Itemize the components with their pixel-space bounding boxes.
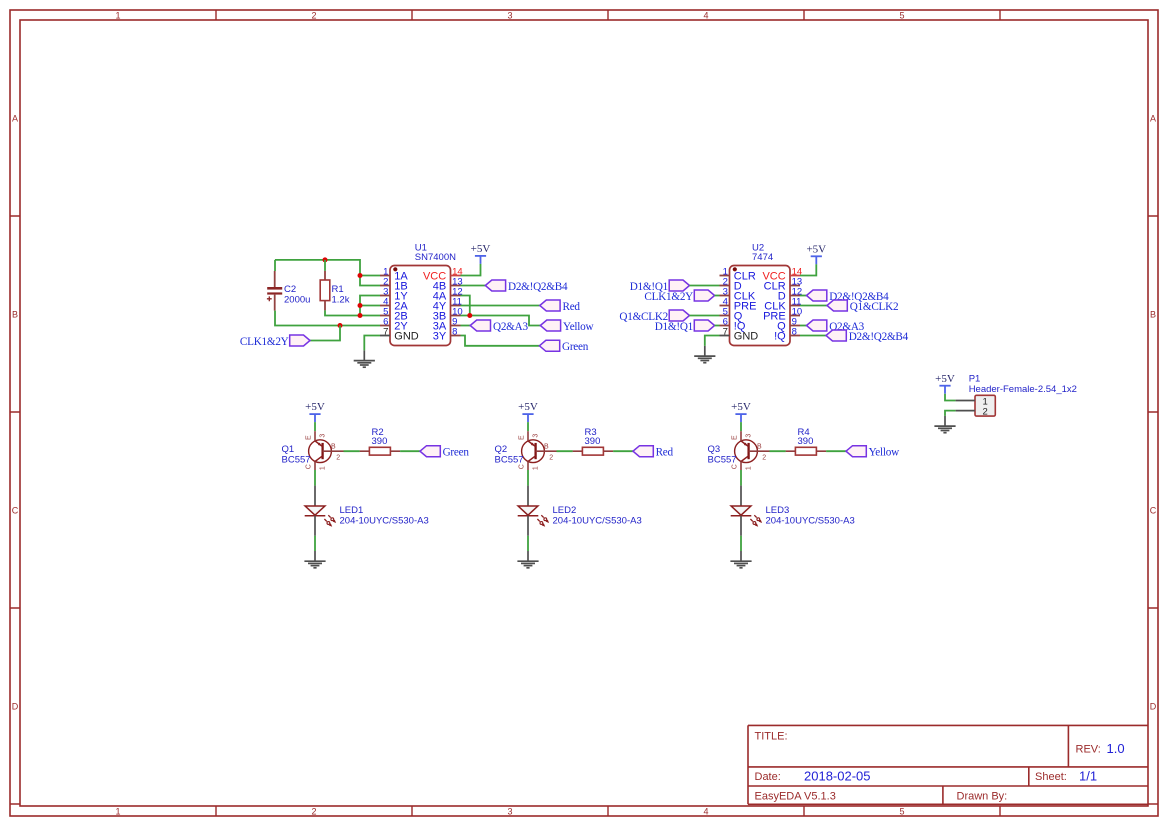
svg-text:390: 390 — [585, 436, 601, 447]
wire LED1 cathode to ground — [314, 536, 316, 551]
wire Q3 base to R4 — [770, 450, 786, 452]
svg-text:390: 390 — [372, 436, 388, 447]
power flag +5V for P1 — [935, 373, 955, 394]
svg-text:1: 1 — [115, 10, 120, 20]
svg-text:D1&!Q1: D1&!Q1 — [655, 321, 693, 333]
svg-text:BC557: BC557 — [282, 455, 311, 466]
svg-text:CLK1&2Y: CLK1&2Y — [644, 291, 693, 303]
svg-text:LED1: LED1 — [340, 505, 364, 516]
svg-text:1.0: 1.0 — [1107, 741, 1125, 756]
svg-text:1/1: 1/1 — [1079, 769, 1097, 784]
svg-text:Q1&CLK2: Q1&CLK2 — [850, 301, 899, 313]
wire +5V to U1 pin14 — [461, 264, 481, 276]
net flag D2&!Q2&B4 (U2 pin8) — [826, 330, 846, 341]
svg-text:B: B — [12, 309, 18, 319]
svg-text:2: 2 — [311, 807, 316, 817]
IC U2 pin 2 (D) left — [720, 276, 742, 292]
power flag +5V for Q1 — [305, 401, 325, 422]
svg-text:8: 8 — [452, 326, 457, 337]
wire U1 pin1 branch — [360, 275, 380, 277]
net flag Q2&A3 (U1 pin9) — [470, 320, 490, 331]
wire R3 to flag Red — [613, 450, 633, 452]
IC U2 pin 14 (VCC) right — [762, 266, 802, 282]
resistor R2 — [360, 447, 400, 455]
net flag D2&!Q2&B4 (U1 pin13) — [485, 280, 505, 291]
wire Q3 collector to LED3 — [740, 470, 742, 486]
svg-text:LED2: LED2 — [553, 505, 577, 516]
wire U1 pin7 to ground — [364, 336, 380, 351]
wire U2 pin12 to flag — [800, 295, 807, 297]
svg-text:204-10UYC/S530-A3: 204-10UYC/S530-A3 — [766, 516, 855, 527]
wire flag to U2 pin6 — [715, 325, 720, 327]
svg-text:+5V: +5V — [935, 373, 955, 385]
svg-text:A: A — [12, 113, 18, 123]
svg-text:5: 5 — [899, 807, 904, 817]
svg-text:+5V: +5V — [731, 401, 751, 413]
capacitor C2 — [267, 271, 282, 311]
IC U2 body — [730, 266, 791, 346]
wire U2 pin11 to flag — [800, 305, 827, 307]
wire U1 pin3 to pin4 — [360, 296, 380, 316]
svg-text:Q2&A3: Q2&A3 — [493, 321, 528, 333]
IC U2 pin 12 (D) right — [778, 286, 802, 302]
IC U2 pin 4 (PRE) left — [720, 296, 757, 312]
svg-text:2018-02-05: 2018-02-05 — [804, 769, 871, 784]
power flag +5V for U1 — [471, 243, 491, 264]
IC U2 pin 10 (PRE) right — [763, 306, 802, 322]
svg-text:Green: Green — [562, 341, 589, 353]
svg-text:Q3: Q3 — [708, 444, 721, 455]
net flag D2&!Q2&B4 (U2 pin12) — [807, 290, 827, 301]
wire Q2 collector to LED2 — [527, 470, 529, 486]
IC U1 body — [390, 266, 451, 346]
junction node pin4 — [358, 303, 363, 308]
wire U1 pin12 down to pin10 net — [461, 296, 470, 316]
connector P1 pin 1 — [956, 396, 988, 407]
title block frame — [748, 725, 1148, 804]
IC U1 pin 7 (GND) left — [380, 326, 419, 342]
junction node pin6/CLK1&2Y — [338, 323, 343, 328]
net flag CLK1&2Y (U2 pin3) — [694, 290, 714, 301]
IC U2 pin 7 (GND) left — [720, 326, 759, 342]
ruler row labels right — [1150, 113, 1157, 711]
net flag D1&!Q1 (U2 pin2) — [669, 280, 689, 291]
svg-text:4: 4 — [703, 807, 708, 817]
svg-text:+5V: +5V — [471, 243, 491, 255]
svg-text:C: C — [1150, 505, 1157, 515]
wire P1 pin2 to ground — [945, 411, 956, 416]
svg-text:3: 3 — [507, 807, 512, 817]
wire U1 pin11 to flag Red — [461, 305, 540, 307]
wire R1 bottom to U1 pin 5 — [325, 310, 380, 315]
ruler column labels bottom — [115, 807, 904, 817]
IC U1 pin 11 (4Y) right — [433, 296, 462, 312]
wire to flag CLK1&2Y — [310, 326, 340, 341]
wire U2 pin8 to flag — [800, 335, 826, 337]
IC U2 pin 9 (Q) right — [777, 316, 800, 332]
svg-text:7474: 7474 — [752, 252, 773, 263]
svg-text:Drawn By:: Drawn By: — [957, 791, 1008, 803]
IC U1 pin 6 (2Y) left — [380, 316, 408, 332]
wire U1 pin8 to flag Green — [461, 336, 540, 346]
wire flag to U2 pin3 — [715, 295, 720, 297]
wire C2 bottom to U1 pin 6 — [275, 311, 380, 326]
LED LED2 — [518, 486, 549, 536]
resistor R1 — [320, 271, 330, 311]
svg-text:CLK1&2Y: CLK1&2Y — [240, 336, 289, 348]
net flag Q2&A3 (U2 pin9) — [807, 320, 827, 331]
net flag Red — [540, 300, 560, 311]
svg-text:GND: GND — [394, 331, 419, 343]
svg-text:BC557: BC557 — [708, 455, 737, 466]
net flag Green — [420, 446, 440, 457]
transistor Q3 BC557 — [732, 431, 770, 470]
wire U1 pin4 branch — [360, 305, 380, 307]
junction node pin10/pin12 — [467, 313, 472, 318]
IC U1 pin 1 (1A) left — [380, 266, 408, 282]
IC U1 pin 13 (4B) right — [433, 276, 463, 292]
svg-text:Red: Red — [563, 301, 581, 313]
wire LED3 cathode to ground — [740, 536, 742, 551]
ground under LED1 — [304, 551, 325, 568]
net flag Yellow — [846, 446, 866, 457]
wire +5V to Q2 emitter — [527, 422, 529, 431]
svg-text:P1: P1 — [969, 374, 981, 385]
svg-text:SN7400N: SN7400N — [415, 252, 456, 263]
net flag D1&!Q1 (U2 pin6) — [694, 320, 714, 331]
svg-text:D: D — [12, 701, 19, 711]
svg-text:1: 1 — [115, 807, 120, 817]
net flag Green — [539, 340, 559, 351]
net flag Red — [633, 446, 653, 457]
ground under LED3 — [730, 551, 751, 568]
wire +5V to U2 pin14 — [800, 264, 816, 275]
IC U2 pin 13 (CLR) right — [764, 276, 802, 292]
resistor R4 — [786, 447, 826, 455]
svg-text:2: 2 — [311, 10, 316, 20]
wire C2 top — [274, 260, 276, 271]
svg-text:+5V: +5V — [305, 401, 325, 413]
svg-text:EasyEDA V5.1.3: EasyEDA V5.1.3 — [755, 791, 836, 803]
IC U2 pin 11 (CLK) right — [764, 296, 801, 312]
wire R1 top — [324, 260, 326, 271]
svg-text:3: 3 — [507, 10, 512, 20]
junction node R1 top — [323, 257, 328, 262]
ruler row labels left — [12, 113, 19, 711]
IC U2 pin 1 (CLR) left — [720, 266, 756, 282]
wire U2 pin7 to ground — [705, 336, 720, 346]
svg-text:7: 7 — [383, 326, 388, 337]
svg-text:REV:: REV: — [1076, 744, 1101, 756]
wire U1 pin13 to flag — [461, 285, 486, 287]
svg-text:1.2k: 1.2k — [332, 294, 350, 305]
svg-text:Sheet:: Sheet: — [1035, 771, 1067, 783]
svg-text:TITLE:: TITLE: — [755, 731, 788, 743]
wire Q2 base to R3 — [557, 450, 573, 452]
IC U1 pin 4 (2A) left — [380, 296, 408, 312]
power flag +5V for U2 — [806, 243, 826, 264]
wire LED2 cathode to ground — [527, 536, 529, 551]
IC U2 pin 3 (CLK) left — [720, 286, 756, 302]
svg-text:D: D — [1150, 701, 1157, 711]
net flag CLK1&2Y — [290, 335, 310, 346]
net flag Q1&CLK2 (U2 pin5) — [669, 310, 689, 321]
IC U1 pin 2 (1B) left — [380, 276, 408, 292]
svg-text:Green: Green — [443, 446, 470, 458]
ground under U1 — [354, 350, 375, 367]
wire Q1 base to R2 — [344, 450, 360, 452]
svg-text:3Y: 3Y — [433, 331, 447, 343]
IC U1 pin 3 (1Y) left — [380, 286, 408, 302]
net flag Q1&CLK2 (U2 pin11) — [827, 300, 847, 311]
svg-text:GND: GND — [734, 331, 759, 343]
svg-text:Header-Female-2.54_1x2: Header-Female-2.54_1x2 — [969, 384, 1077, 395]
svg-text:BC557: BC557 — [495, 455, 524, 466]
ground under P1 — [934, 416, 955, 433]
svg-text:7: 7 — [723, 326, 728, 337]
connector P1 Header-Female body — [975, 395, 995, 416]
svg-text:!Q: !Q — [774, 331, 786, 343]
ground under U2 — [694, 346, 715, 363]
wire +5V to Q1 emitter — [314, 422, 316, 431]
power flag +5V for Q2 — [518, 401, 538, 422]
IC U2 pin 8 (!Q) right — [774, 326, 800, 342]
transistor Q1 BC557 — [306, 431, 344, 470]
svg-text:Q1: Q1 — [282, 444, 295, 455]
transistor Q2 BC557 — [519, 431, 557, 470]
junction node pin1 — [358, 273, 363, 278]
svg-text:2000u: 2000u — [284, 294, 310, 305]
IC U1 pin 5 (2B) left — [380, 306, 408, 322]
svg-text:B: B — [1150, 309, 1156, 319]
svg-text:Red: Red — [656, 446, 674, 458]
IC U1 pin 8 (3Y) right — [433, 326, 461, 342]
resistor R3 — [573, 447, 613, 455]
power flag +5V for Q3 — [731, 401, 751, 422]
wire Q1 collector to LED1 — [314, 470, 316, 486]
svg-text:Yellow: Yellow — [869, 446, 900, 458]
wire U1 pin9 to flag Q2&A3 — [461, 325, 471, 327]
svg-text:5: 5 — [899, 10, 904, 20]
IC U1 pin 10 (3B) right — [433, 306, 463, 322]
svg-text:D2&!Q2&B4: D2&!Q2&B4 — [508, 281, 568, 293]
junction node pin5 — [358, 313, 363, 318]
wire R4 to flag Yellow — [826, 450, 846, 452]
svg-text:204-10UYC/S530-A3: 204-10UYC/S530-A3 — [340, 516, 429, 527]
wire +5V to P1 pin1 — [945, 394, 956, 401]
connector P1 pin 2 — [956, 407, 988, 418]
svg-text:Date:: Date: — [755, 771, 781, 783]
wire top net C2/R1 to U1 pins 1,2 — [275, 260, 380, 286]
wire U1 pin10 to flag Yellow — [461, 316, 541, 326]
svg-text:+5V: +5V — [806, 243, 826, 255]
svg-text:D2&!Q2&B4: D2&!Q2&B4 — [849, 331, 909, 343]
wire flag to U2 pin5 — [690, 315, 720, 317]
ruler column labels top — [115, 10, 904, 20]
svg-text:A: A — [1150, 113, 1156, 123]
svg-text:LED3: LED3 — [766, 505, 790, 516]
LED LED3 — [731, 486, 762, 536]
svg-text:Q2: Q2 — [495, 444, 508, 455]
IC U1 pin 9 (3A) right — [433, 316, 461, 332]
svg-text:390: 390 — [798, 436, 814, 447]
wire +5V to Q3 emitter — [740, 422, 742, 431]
svg-text:4: 4 — [703, 10, 708, 20]
ground under LED2 — [517, 551, 538, 568]
IC U1 pin 14 (VCC) right — [423, 266, 463, 282]
svg-text:+5V: +5V — [518, 401, 538, 413]
IC U2 pin 5 (Q) left — [720, 306, 743, 322]
svg-text:Yellow: Yellow — [563, 321, 594, 333]
svg-text:8: 8 — [792, 326, 797, 337]
IC U1 pin 12 (4A) right — [433, 286, 463, 302]
wire flag to U2 pin2 — [690, 285, 720, 287]
IC U2 pin 6 (!Q) left — [720, 316, 746, 332]
svg-text:2: 2 — [983, 407, 988, 418]
net flag Yellow — [540, 320, 560, 331]
wire R2 to flag Green — [400, 450, 420, 452]
svg-text:204-10UYC/S530-A3: 204-10UYC/S530-A3 — [553, 516, 642, 527]
wire U2 pin9 to flag — [800, 325, 807, 327]
svg-text:C: C — [12, 505, 19, 515]
LED LED1 — [305, 486, 336, 536]
